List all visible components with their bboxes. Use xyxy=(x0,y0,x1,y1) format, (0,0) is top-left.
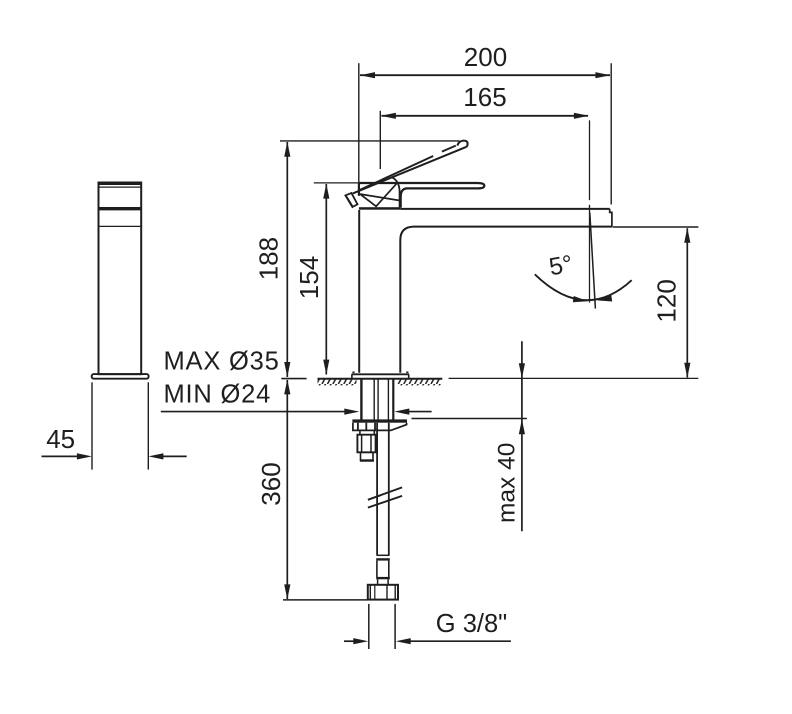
base plate (outlined) xyxy=(352,373,409,375)
5deg arc xyxy=(535,274,632,300)
max40 dim: lower reference line xyxy=(412,418,527,420)
154 reference tick (thin) at lever top xyxy=(314,182,359,184)
countertop hatching right xyxy=(397,379,442,385)
lever pivot hidden edge xyxy=(359,194,399,201)
body top bar xyxy=(359,207,401,210)
G3/8 dim arrows xyxy=(344,640,355,642)
spout top edge xyxy=(401,208,610,210)
165 dim: left extension line xyxy=(379,111,381,169)
cartridge dome right shoulder xyxy=(392,177,400,207)
G3/8 nut xyxy=(368,585,398,600)
360 dim: top tick at counter level xyxy=(281,378,306,380)
spout underside + inner corner + body right edge xyxy=(400,227,612,373)
flexible hose xyxy=(376,423,378,555)
svg-text:MIN Ø24: MIN Ø24 xyxy=(164,381,272,409)
hose end neck xyxy=(377,579,379,584)
base plate end tabs xyxy=(352,371,354,373)
side view: handle/body outline xyxy=(99,183,142,375)
outlet vertical reference line xyxy=(589,205,591,303)
hose end collar xyxy=(376,554,389,556)
45 dim: line + arrows xyxy=(42,455,79,457)
raised lever: bottom edge xyxy=(353,147,466,194)
lever blade (rest position): top, rounded end, underside into neck xyxy=(359,183,485,208)
360 dim: line + arrows xyxy=(286,380,288,599)
lever tail (lowered position) xyxy=(345,193,357,207)
svg-text:G 3/8": G 3/8" xyxy=(436,610,507,638)
raised lever: end cap xyxy=(457,141,467,147)
spout tip step xyxy=(610,209,612,227)
svg-text:165: 165 xyxy=(463,82,506,112)
120 dim: top extension (spout underside) xyxy=(613,226,699,228)
svg-text:154: 154 xyxy=(294,256,324,299)
countertop thin line continuing right (to 120 dim) xyxy=(449,377,699,379)
154 dim: line + arrows xyxy=(325,184,327,375)
188 dim: top tick (to raised lever tip) xyxy=(280,140,460,142)
svg-text:200: 200 xyxy=(464,42,507,72)
hose end tube xyxy=(376,561,378,577)
max40 dim: upper arrowhead at counter xyxy=(519,363,525,378)
G3/8 extension lines xyxy=(368,604,370,649)
MIN dia 24 leader + arrows xyxy=(161,411,345,413)
lever underside V (rest position) xyxy=(360,184,396,207)
svg-text:360: 360 xyxy=(256,462,286,505)
stud bottom thick edge xyxy=(360,460,374,462)
mounting flange lower lip with wedge end xyxy=(353,423,407,431)
165 dim: line + arrows xyxy=(382,115,589,117)
side view: handle/body joint band xyxy=(99,207,142,210)
side view: cap seam line xyxy=(99,186,142,188)
165 dim: right extension line (upper) xyxy=(589,120,591,200)
lever tail inner edge xyxy=(347,197,353,206)
raised lever: top edge (dashed part) xyxy=(442,146,456,152)
countertop line xyxy=(318,378,443,380)
45 dim: extension lines xyxy=(91,382,93,469)
body left edge xyxy=(358,210,360,373)
120 dim: line + arrows xyxy=(686,228,688,377)
188 dim: line + arrows xyxy=(286,142,288,377)
countertop hatching left xyxy=(318,379,357,385)
side view: base plate xyxy=(92,374,149,379)
svg-text:max 40: max 40 xyxy=(494,443,521,523)
svg-text:188: 188 xyxy=(254,237,284,280)
flange lip ribs xyxy=(357,423,359,431)
svg-text:45: 45 xyxy=(46,424,75,454)
outlet 5deg tilted line xyxy=(590,213,596,309)
svg-text:120: 120 xyxy=(652,279,682,322)
5deg arc arrowheads xyxy=(573,296,588,302)
200 dim: line + arrows xyxy=(360,74,610,76)
raised lever: top edge (solid part) xyxy=(359,156,434,191)
200 dim: left extension line xyxy=(358,63,360,183)
leader line from nut bottom to 360 dim xyxy=(283,599,368,601)
200 dim: right extension line xyxy=(610,63,612,204)
svg-text:MAX Ø35: MAX Ø35 xyxy=(164,347,280,375)
threaded shank outer edges xyxy=(360,379,362,420)
stud between flange and nut xyxy=(359,430,361,434)
mounting nut xyxy=(357,435,375,453)
max40 dim: lower arrowhead xyxy=(519,419,525,434)
side view: lower trim line xyxy=(99,225,142,227)
svg-text:5°: 5° xyxy=(547,251,575,282)
hose break symbol xyxy=(368,487,402,499)
max40 dim: continuous line xyxy=(521,341,523,531)
lever back face xyxy=(358,183,360,196)
stud end below nut xyxy=(361,452,374,460)
side view: top cap thick edge xyxy=(99,182,142,185)
supply pipes inside shank xyxy=(373,379,375,419)
mounting flange bar xyxy=(352,419,407,422)
